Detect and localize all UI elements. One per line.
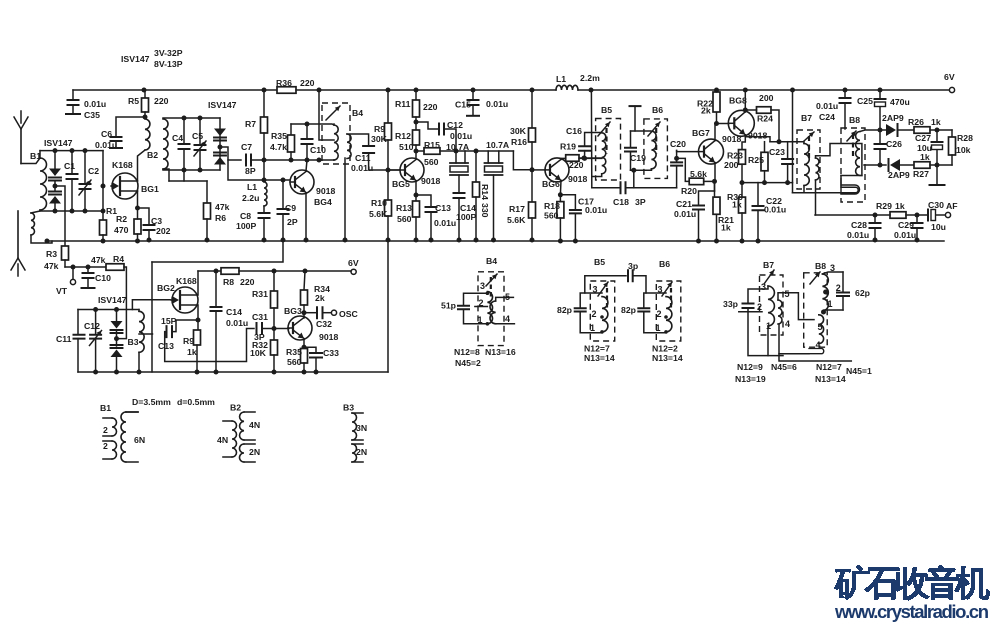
transformer B4 primary bbox=[334, 125, 338, 160]
svg-text:C32: C32 bbox=[316, 319, 332, 329]
junction bbox=[558, 239, 563, 244]
wire coil top link B6 bbox=[631, 130, 651, 132]
resistor R29 1k bbox=[890, 212, 906, 219]
svg-text:BG5: BG5 bbox=[392, 179, 410, 189]
svg-text:9018: 9018 bbox=[568, 174, 587, 184]
wire C29 bottom bbox=[916, 228, 918, 240]
capacitor C9 2P bbox=[278, 209, 289, 214]
transformer B2 secondary winding bbox=[163, 119, 168, 169]
svg-text:200: 200 bbox=[724, 160, 739, 170]
transformer B7 detail box bbox=[760, 275, 784, 335]
capacitor C11a bbox=[363, 146, 374, 153]
wire B3 bottom lead bbox=[138, 352, 140, 372]
wire R14 top lead bbox=[475, 151, 477, 182]
wire osc left vertical bbox=[151, 262, 153, 372]
wire B2 tank top bbox=[163, 117, 220, 119]
antenna bbox=[20, 129, 22, 164]
wire C9 bottom lead bbox=[282, 214, 284, 240]
resistor R11 bbox=[413, 100, 420, 117]
B2 spec left leads bbox=[223, 421, 232, 457]
wire C32 to OSC bbox=[323, 312, 332, 314]
tuning arrow B7 bbox=[804, 132, 814, 141]
junction bbox=[582, 156, 587, 161]
transistor BG2 K168 bbox=[172, 287, 198, 313]
svg-text:6N: 6N bbox=[134, 435, 145, 445]
svg-text:N45=1: N45=1 bbox=[846, 366, 872, 376]
transformer B5 winding bbox=[602, 133, 606, 174]
svg-text:1: 1 bbox=[590, 323, 595, 333]
svg-text:N45=2: N45=2 bbox=[455, 358, 481, 368]
wire C14b bottom bbox=[215, 311, 217, 372]
capacitor 3p bbox=[628, 270, 633, 281]
junction bbox=[143, 115, 148, 120]
junction bbox=[262, 238, 267, 243]
wire R19 to B5 tap bbox=[579, 157, 602, 159]
svg-text:560: 560 bbox=[424, 157, 439, 167]
wire R29 to C30 bbox=[906, 214, 927, 216]
svg-text:ISV147: ISV147 bbox=[44, 138, 73, 148]
wire audio line bbox=[815, 214, 875, 216]
resistor R10 bbox=[385, 200, 392, 216]
wire B5 loop bottom bbox=[580, 312, 602, 333]
capacitor C2 bbox=[80, 184, 91, 189]
svg-text:C4: C4 bbox=[172, 133, 183, 143]
wire VT line bbox=[65, 266, 106, 268]
junction bbox=[53, 148, 58, 153]
junction bbox=[589, 88, 594, 93]
svg-text:N12=8: N12=8 bbox=[454, 347, 480, 357]
wire B4 detail tap3 bbox=[464, 293, 488, 305]
wire B8 top lead bbox=[860, 130, 886, 132]
wire R22 top lead bbox=[716, 90, 718, 92]
watermark crystalradio logo bbox=[834, 565, 990, 601]
svg-text:5: 5 bbox=[818, 322, 823, 332]
wire R9b bottom bbox=[196, 345, 198, 372]
wire C19 node vertical bbox=[633, 170, 635, 188]
svg-text:R2: R2 bbox=[116, 214, 127, 224]
wire B7 pin4 drop bbox=[779, 324, 851, 361]
wire B3 top lead bbox=[138, 310, 140, 312]
terminal bbox=[945, 212, 950, 217]
svg-text:4N: 4N bbox=[249, 420, 260, 430]
resistor R36 bbox=[277, 87, 296, 94]
svg-text:0.01u: 0.01u bbox=[450, 131, 472, 141]
junction bbox=[573, 239, 578, 244]
svg-text:N13=19: N13=19 bbox=[735, 374, 766, 384]
svg-text:B3: B3 bbox=[343, 403, 354, 413]
wire diode1 to R26 bbox=[898, 129, 914, 131]
capacitor C12 bbox=[439, 124, 444, 135]
resistor R3 47k bbox=[62, 246, 69, 260]
svg-text:C6: C6 bbox=[101, 129, 112, 139]
transistor BG8 9018 bbox=[728, 110, 754, 136]
wire R8 to 6V term bbox=[239, 270, 351, 272]
B1 spec right coil bbox=[121, 412, 126, 462]
junction bbox=[414, 120, 419, 125]
wire R10 bottom bbox=[387, 216, 389, 240]
capacitor C15 bbox=[468, 100, 479, 105]
junction bbox=[317, 158, 322, 163]
resistor R22 2k bbox=[713, 92, 720, 112]
svg-text:5: 5 bbox=[785, 289, 790, 299]
svg-text:B7: B7 bbox=[763, 260, 774, 270]
resistor R9b 1k bbox=[194, 330, 201, 345]
inductor B3 winding bbox=[139, 311, 144, 352]
transformer B1 primary winding bbox=[40, 158, 47, 210]
wire 33p down bbox=[748, 308, 783, 356]
svg-text:R19: R19 bbox=[560, 142, 576, 152]
svg-text:0.01u: 0.01u bbox=[84, 99, 106, 109]
svg-text:R29: R29 bbox=[876, 201, 892, 211]
svg-text:C1: C1 bbox=[64, 161, 75, 171]
wire C12 to filter bbox=[444, 129, 456, 151]
svg-text:N13=14: N13=14 bbox=[815, 374, 846, 384]
junction bbox=[198, 168, 203, 173]
svg-text:C3: C3 bbox=[151, 216, 162, 226]
svg-text:3P: 3P bbox=[254, 332, 265, 342]
wire B1 bottom to bus bbox=[31, 235, 52, 243]
wire 62p loop bottom bbox=[824, 309, 843, 311]
svg-text:R10: R10 bbox=[371, 198, 387, 208]
transformer B6 detail box bbox=[656, 281, 681, 341]
svg-text:K168: K168 bbox=[176, 276, 197, 286]
junction bbox=[289, 158, 294, 163]
svg-text:0.01u: 0.01u bbox=[95, 140, 117, 150]
junction bbox=[101, 239, 106, 244]
resistor R21 bbox=[713, 197, 720, 214]
resistor R7 bbox=[261, 117, 268, 133]
tuning arrow B5 bbox=[598, 122, 610, 136]
wire BG3 base bbox=[274, 328, 289, 330]
svg-text:AF: AF bbox=[946, 201, 958, 211]
wire B2 primary to BG1 drain bbox=[138, 150, 146, 181]
svg-text:30K: 30K bbox=[371, 134, 388, 144]
wire C20 bottom bbox=[676, 166, 678, 188]
svg-text:0.01u: 0.01u bbox=[894, 230, 916, 240]
capacitor 82p B6 bbox=[638, 308, 649, 311]
svg-text:9018: 9018 bbox=[316, 186, 335, 196]
junction bbox=[262, 88, 267, 93]
varactor diode B1 top bbox=[49, 169, 61, 177]
transistor BG5 9018 bbox=[400, 158, 424, 182]
svg-text:R4: R4 bbox=[113, 254, 124, 264]
svg-text:10k: 10k bbox=[956, 145, 971, 155]
B5 detail arrow bbox=[598, 282, 608, 296]
svg-text:82p: 82p bbox=[557, 305, 572, 315]
ceramic filter 10.7A second bbox=[485, 162, 503, 164]
wire osc bottom bbox=[140, 371, 388, 373]
wire R19 to B5 bbox=[580, 157, 602, 159]
wire varactor B1 top lead bbox=[54, 151, 56, 169]
capacitor 82p B5 bbox=[575, 308, 586, 311]
wire bottom link bbox=[592, 187, 620, 189]
resistor R34 2k bbox=[301, 290, 308, 305]
capacitor C10a bbox=[302, 139, 313, 144]
junction bbox=[303, 269, 308, 274]
svg-text:C29: C29 bbox=[898, 220, 914, 230]
wire varactor tap to R3 bbox=[55, 186, 65, 246]
svg-text:2.2u: 2.2u bbox=[242, 193, 259, 203]
capacitor C28 bbox=[870, 223, 881, 228]
capacitor C24 bbox=[840, 98, 851, 103]
junction bbox=[45, 239, 50, 244]
svg-text:B8: B8 bbox=[815, 261, 826, 271]
wire C14a bottom bbox=[458, 198, 460, 240]
capacitor C6 bbox=[111, 137, 122, 141]
svg-text:2AP9: 2AP9 bbox=[882, 113, 904, 123]
wire C6 branch bbox=[116, 117, 145, 136]
wire C28 top bbox=[874, 215, 876, 222]
wire BG2 source bbox=[197, 305, 200, 320]
capacitor C3 bbox=[144, 225, 155, 230]
resistor R32 bbox=[271, 340, 278, 355]
junction bbox=[664, 330, 668, 334]
svg-text:B8: B8 bbox=[849, 115, 860, 125]
wire C15 top lead bbox=[472, 90, 474, 99]
svg-text:R23: R23 bbox=[727, 151, 743, 161]
junction bbox=[474, 238, 479, 243]
wire R6 bottom lead bbox=[206, 219, 208, 240]
resistor R4 47k bbox=[106, 264, 124, 271]
junction bbox=[530, 88, 535, 93]
svg-text:R9: R9 bbox=[374, 124, 385, 134]
svg-text:220: 220 bbox=[423, 102, 438, 112]
svg-text:R18: R18 bbox=[544, 201, 560, 211]
junction bbox=[935, 163, 940, 168]
wire 3p link left bbox=[585, 276, 626, 293]
junction bbox=[714, 88, 719, 93]
svg-text:R11: R11 bbox=[395, 99, 411, 109]
antenna lower arrow bbox=[17, 211, 19, 258]
wire varactor bottom lead bbox=[219, 163, 221, 170]
junction bbox=[195, 370, 200, 375]
wire R34 top bbox=[304, 271, 305, 290]
svg-text:3P: 3P bbox=[635, 197, 646, 207]
wire R5 top lead bbox=[144, 90, 146, 98]
resistor R1 bbox=[100, 220, 107, 235]
varactor osc top bbox=[111, 321, 123, 329]
wire C12 branch bbox=[416, 122, 438, 129]
svg-text:6V: 6V bbox=[348, 258, 359, 268]
B6 detail arrow bbox=[662, 282, 672, 296]
wire C33 branch bbox=[304, 347, 316, 352]
svg-text:B6: B6 bbox=[652, 105, 663, 115]
svg-text:10K: 10K bbox=[250, 348, 267, 358]
capacitor C13a bbox=[426, 207, 437, 212]
svg-text:1k: 1k bbox=[732, 200, 742, 210]
resistor R27 1k bbox=[914, 162, 930, 169]
svg-text:N12=7: N12=7 bbox=[816, 362, 842, 372]
variable arrow C12b bbox=[90, 331, 102, 346]
transformer B7 secondary bbox=[816, 158, 819, 180]
wire R16 top lead bbox=[531, 90, 533, 128]
svg-text:560: 560 bbox=[287, 357, 302, 367]
wire BG4 base wire bbox=[228, 160, 290, 180]
junction bbox=[843, 88, 848, 93]
wire B6 coil bottom join bbox=[650, 169, 652, 170]
resistor R31 bbox=[271, 291, 278, 308]
wire B5 loop top bbox=[580, 293, 602, 308]
wire C21 bottom bbox=[698, 210, 700, 242]
svg-text:R24: R24 bbox=[757, 114, 773, 124]
svg-text:2: 2 bbox=[592, 309, 597, 319]
wire B7 pin1 drop bbox=[767, 326, 769, 356]
wire C10a bottom lead bbox=[306, 144, 308, 160]
svg-text:2AP9: 2AP9 bbox=[888, 170, 910, 180]
transformer B6 winding bbox=[651, 131, 656, 169]
capacitor C22 bbox=[753, 206, 764, 210]
wire B4 secondary bottom ground bbox=[344, 158, 346, 240]
wire B2 secondary bottom jog bbox=[163, 169, 169, 181]
filter2 stub left bbox=[487, 151, 489, 163]
svg-text:0.01u: 0.01u bbox=[674, 209, 696, 219]
wire C31 right bbox=[262, 328, 274, 330]
wire 6V top rail middle bbox=[296, 89, 556, 91]
svg-text:L1: L1 bbox=[556, 74, 566, 84]
svg-text:d=0.5mm: d=0.5mm bbox=[177, 397, 215, 407]
wire B1 coil top bbox=[39, 151, 41, 158]
wire C11b top lead bbox=[77, 310, 79, 335]
varactor osc bottom bbox=[111, 350, 123, 358]
wire varactor b bottom bbox=[116, 357, 118, 372]
svg-text:C12: C12 bbox=[447, 120, 463, 130]
svg-text:2P: 2P bbox=[287, 217, 298, 227]
filter2 center down bbox=[493, 175, 495, 240]
wire C4 top lead bbox=[183, 118, 185, 143]
capacitor C17 bbox=[570, 210, 581, 213]
svg-text:2: 2 bbox=[103, 425, 108, 435]
junction bbox=[135, 206, 140, 211]
svg-text:8V-13P: 8V-13P bbox=[154, 59, 183, 69]
wire varactor mid bbox=[219, 136, 221, 157]
svg-text:C23: C23 bbox=[769, 147, 785, 157]
junction bbox=[302, 345, 307, 350]
capacitor C18 3P bbox=[621, 182, 626, 193]
svg-text:0.01u: 0.01u bbox=[816, 101, 838, 111]
wire R35b bottom bbox=[303, 363, 305, 372]
transformer B6 shield box bbox=[644, 119, 668, 178]
junction bbox=[600, 315, 604, 319]
svg-text:C30: C30 bbox=[928, 200, 944, 210]
svg-text:2: 2 bbox=[657, 309, 662, 319]
wire B8 bottom node bbox=[841, 175, 862, 177]
resistor R18 bbox=[557, 202, 564, 218]
svg-text:N13=14: N13=14 bbox=[652, 353, 683, 363]
wire node124 bbox=[291, 124, 334, 125]
svg-text:BG3: BG3 bbox=[284, 306, 302, 316]
wire B4 secondary top to C11a bbox=[347, 134, 369, 145]
svg-text:4.7k: 4.7k bbox=[270, 142, 287, 152]
junction bbox=[429, 238, 434, 243]
svg-text:10u: 10u bbox=[917, 143, 932, 153]
junction bbox=[714, 121, 719, 126]
B4 detail secondary bbox=[490, 301, 496, 324]
wire diode2 to R27 bbox=[900, 164, 914, 166]
junction bbox=[272, 269, 277, 274]
svg-text:B4: B4 bbox=[486, 256, 497, 266]
junction bbox=[915, 238, 920, 243]
wire C22 branch bbox=[757, 183, 759, 205]
B2 spec right upper bbox=[240, 412, 244, 440]
terminal bbox=[351, 269, 356, 274]
svg-text:C12: C12 bbox=[84, 321, 100, 331]
transformer B5 shield box bbox=[596, 119, 621, 181]
wire VT drop bbox=[72, 267, 74, 279]
junction bbox=[414, 238, 419, 243]
junction bbox=[454, 149, 459, 154]
wire osc right vertical bbox=[387, 240, 389, 372]
inductor L1 2.2u bbox=[264, 182, 267, 206]
junction bbox=[314, 370, 319, 375]
wire C10b bottom bbox=[87, 278, 89, 287]
svg-text:2N: 2N bbox=[356, 447, 367, 457]
junction bbox=[878, 128, 883, 133]
svg-text:100P: 100P bbox=[456, 212, 476, 222]
junction bbox=[182, 168, 187, 173]
svg-text:3N: 3N bbox=[356, 423, 367, 433]
svg-text:1k: 1k bbox=[920, 152, 930, 162]
svg-text:R3: R3 bbox=[46, 249, 57, 259]
variable arrow C5 bbox=[194, 141, 206, 156]
wire C11a to base bbox=[369, 153, 400, 170]
wire osc tank top bbox=[78, 309, 139, 311]
wire B2 tank bottom bbox=[163, 169, 220, 171]
wire BG6 base bbox=[532, 169, 545, 171]
B2 spec right lower bbox=[240, 444, 245, 462]
svg-text:C10: C10 bbox=[95, 273, 111, 283]
wire R27 right bbox=[930, 164, 952, 166]
junction bbox=[272, 326, 277, 331]
junction bbox=[304, 238, 309, 243]
wire R22 bottom lead bbox=[716, 112, 718, 124]
wire varactor b mid bbox=[116, 332, 118, 347]
wire R23 top bbox=[742, 137, 745, 150]
wire rail feed C23 bbox=[792, 90, 794, 193]
wire R9a bottom lead bbox=[387, 140, 389, 170]
junction bbox=[762, 180, 767, 185]
wire BG2 drain bbox=[197, 271, 200, 295]
junction bbox=[664, 315, 668, 319]
resistor R25 bbox=[761, 152, 768, 171]
junction bbox=[873, 238, 878, 243]
svg-text:ISV147: ISV147 bbox=[121, 54, 150, 64]
wire C25 bottom bbox=[879, 107, 881, 130]
wire C16 bottom lead bbox=[584, 151, 586, 159]
capacitor C13b 15P bbox=[167, 326, 173, 337]
wire BG4 emitter bbox=[305, 193, 307, 240]
svg-text:N13=16: N13=16 bbox=[485, 347, 516, 357]
wire BG4 collector bbox=[306, 160, 307, 171]
svg-text:C13: C13 bbox=[435, 203, 451, 213]
wire C35 lead bbox=[72, 90, 74, 99]
transistor BG7 9018 bbox=[699, 139, 724, 164]
B1 spec left leads bbox=[103, 418, 112, 459]
junction bbox=[600, 330, 604, 334]
capacitor C26 bbox=[875, 144, 886, 149]
junction bbox=[272, 370, 277, 375]
junction bbox=[302, 310, 307, 315]
wire bottom node 182 bbox=[742, 182, 793, 184]
ceramic filter 10.7A first bbox=[450, 162, 468, 164]
filter2 stub right bbox=[498, 151, 500, 163]
ground C6 bbox=[110, 147, 122, 149]
ground C35 bbox=[66, 113, 80, 115]
svg-text:C25: C25 bbox=[857, 96, 873, 106]
svg-text:R7: R7 bbox=[245, 119, 256, 129]
wire R35a bottom lead bbox=[290, 152, 292, 160]
junction bbox=[414, 88, 419, 93]
svg-text:4: 4 bbox=[505, 314, 510, 324]
